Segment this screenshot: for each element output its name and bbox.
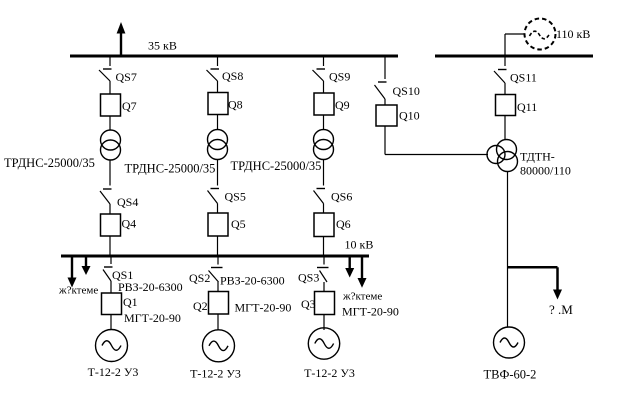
svg-text:ж?ктеме: ж?ктеме: [58, 285, 98, 297]
svg-text:? .М: ? .М: [549, 302, 573, 317]
svg-text:QS9: QS9: [329, 70, 350, 84]
svg-text:Q10: Q10: [399, 109, 420, 123]
svg-text:QS10: QS10: [393, 84, 420, 98]
svg-text:РВЗ-20-6300: РВЗ-20-6300: [220, 274, 285, 288]
svg-text:МГТ-20-90: МГТ-20-90: [235, 301, 292, 315]
svg-text:Q5: Q5: [231, 217, 246, 231]
svg-text:Q6: Q6: [336, 217, 351, 231]
svg-text:ж?ктеме: ж?ктеме: [342, 291, 382, 303]
svg-text:РВЗ-20-6300: РВЗ-20-6300: [118, 280, 183, 294]
svg-text:Q8: Q8: [228, 98, 243, 112]
svg-text:Q1: Q1: [123, 295, 138, 309]
svg-text:10 кВ: 10 кВ: [345, 238, 374, 252]
svg-text:Q4: Q4: [122, 217, 137, 231]
svg-text:ТДТН-: ТДТН-: [520, 150, 555, 164]
svg-text:QS4: QS4: [117, 195, 138, 209]
svg-text:Т-12-2 У3: Т-12-2 У3: [88, 365, 139, 379]
svg-text:110 кВ: 110 кВ: [556, 27, 590, 41]
svg-text:QS8: QS8: [222, 69, 243, 83]
svg-text:ТРДНС-25000/35: ТРДНС-25000/35: [231, 159, 322, 173]
svg-text:QS7: QS7: [116, 70, 137, 84]
svg-text:Q11: Q11: [517, 100, 537, 114]
svg-text:QS11: QS11: [510, 71, 537, 85]
svg-text:Т-12-2 У3: Т-12-2 У3: [304, 366, 355, 380]
svg-text:QS2: QS2: [189, 271, 210, 285]
svg-text:Q7: Q7: [122, 99, 137, 113]
svg-text:QS6: QS6: [331, 190, 352, 204]
svg-text:Q2: Q2: [193, 299, 208, 313]
svg-text:Q9: Q9: [335, 98, 350, 112]
svg-text:35 кВ: 35 кВ: [148, 39, 177, 53]
svg-text:ТРДНС-25000/35: ТРДНС-25000/35: [125, 162, 216, 176]
svg-text:Т-12-2 У3: Т-12-2 У3: [190, 367, 241, 381]
svg-text:ТВФ-60-2: ТВФ-60-2: [484, 368, 537, 382]
svg-text:МГТ-20-90: МГТ-20-90: [124, 311, 181, 325]
svg-text:ТРДНС-25000/35: ТРДНС-25000/35: [4, 156, 95, 170]
svg-text:80000/110: 80000/110: [520, 164, 571, 178]
svg-text:QS3: QS3: [298, 271, 319, 285]
svg-text:МГТ-20-90: МГТ-20-90: [342, 305, 399, 319]
svg-text:QS5: QS5: [225, 190, 246, 204]
svg-text:Q3: Q3: [301, 297, 316, 311]
